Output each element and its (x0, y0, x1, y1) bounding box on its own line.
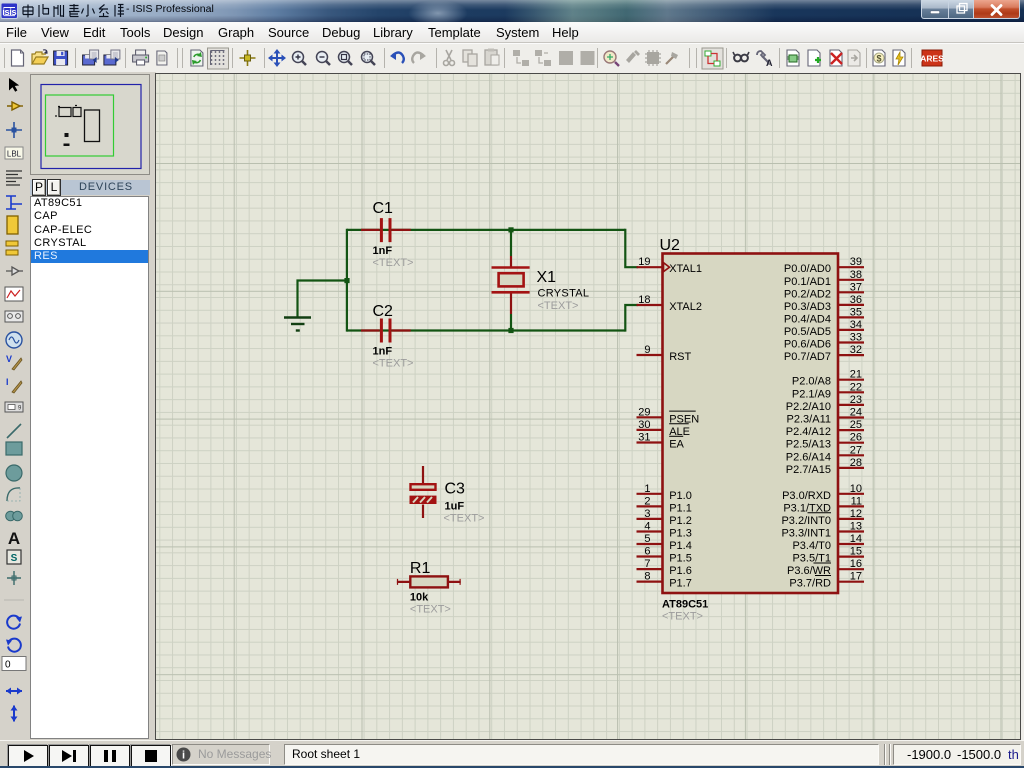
rotation angle box (2, 657, 26, 671)
svg-text:22: 22 (850, 381, 862, 393)
window buttons (921, 0, 1020, 19)
pin 15 P3.5/T1 (792, 546, 864, 565)
capacitor C1 (361, 218, 411, 242)
svg-text:1: 1 (644, 483, 650, 495)
junction node at left rail / ground (344, 278, 349, 283)
svg-text:P2.6/A14: P2.6/A14 (786, 451, 831, 463)
pin 12 P3.2/INT0 (781, 508, 864, 527)
print design icon (133, 50, 149, 65)
svg-text:P0.5/AD5: P0.5/AD5 (784, 326, 831, 338)
svg-text:ARES: ARES (920, 54, 944, 64)
svg-text:35: 35 (850, 306, 862, 318)
svg-text:AT89C51: AT89C51 (662, 599, 708, 611)
svg-text:10: 10 (850, 483, 862, 495)
svg-text:17: 17 (850, 571, 862, 583)
virtual instruments icon (5, 402, 23, 412)
window title: chinese characters drawn as svg strokes + latin text (20, 3, 214, 19)
svg-text:P1.5: P1.5 (669, 553, 692, 565)
svg-text:A: A (8, 529, 20, 548)
wire: crystal bottom stub (510, 314, 512, 332)
svg-text:39: 39 (850, 256, 862, 268)
redraw display icon (191, 50, 203, 66)
svg-text:A: A (766, 58, 773, 68)
pin 37 P0.2/AD2 (784, 281, 864, 300)
svg-text:30: 30 (638, 419, 650, 431)
design explorer icon (787, 50, 799, 66)
rotate anticlockwise icon (6, 639, 21, 652)
svg-text:26: 26 (850, 432, 862, 444)
junction dot mode icon (6, 122, 22, 138)
wire: bottom rail C2 to corner (347, 329, 625, 331)
svg-text:P2.5/A13: P2.5/A13 (786, 439, 831, 451)
2d line icon (7, 424, 21, 438)
pin 33 P0.6/AD6 (784, 332, 864, 351)
junction node top rail / crystal (508, 227, 513, 232)
svg-text:P1.4: P1.4 (669, 540, 692, 552)
pin 13 P3.3/INT1 (781, 521, 864, 540)
mini r1 mark (64, 144, 70, 147)
bus mode icon (6, 196, 22, 209)
pin 23 P2.2/A10 (786, 394, 864, 413)
pin 38 P0.1/AD1 (784, 269, 864, 288)
separator (4, 599, 24, 601)
svg-text:XTAL1: XTAL1 (669, 263, 702, 275)
pin 36 P0.3/AD3 (784, 294, 864, 313)
svg-text:P2.2/A10: P2.2/A10 (786, 401, 831, 413)
svg-text:21: 21 (850, 369, 862, 381)
new design icon (12, 50, 24, 66)
pin 14 P3.4/T0 (792, 533, 864, 552)
rotate clockwise icon (7, 616, 22, 629)
pin 17 P3.7/RD (789, 571, 864, 590)
zoom in icon (293, 52, 307, 66)
new sheet icon (808, 50, 821, 66)
tape recorder icon (5, 311, 23, 322)
svg-text:9: 9 (644, 344, 650, 356)
pin 32 P0.7/AD7 (784, 344, 864, 363)
svg-text:CRYSTAL: CRYSTAL (538, 288, 590, 300)
pin 3 P1.2 (637, 508, 692, 527)
svg-text:29: 29 (638, 406, 650, 418)
import section icon (83, 50, 99, 65)
wire: XTAL2 rise to pin 18 (625, 305, 638, 332)
pin 25 P2.4/A12 (786, 419, 864, 438)
netlist to ares icon (920, 50, 944, 66)
pin 5 P1.4 (637, 533, 692, 552)
pin 39 P0.0/AD0 (784, 256, 864, 275)
svg-text:19: 19 (638, 256, 650, 268)
svg-text:XTAL2: XTAL2 (669, 301, 702, 313)
svg-text:15: 15 (850, 546, 862, 558)
svg-text:10k: 10k (410, 592, 429, 604)
wire: left vertical rail (346, 229, 348, 332)
block copy icon (disabled) (513, 50, 529, 66)
svg-text:X1: X1 (537, 269, 557, 286)
mark output area icon (157, 51, 167, 65)
svg-text:EA: EA (669, 439, 684, 451)
svg-text:P1.7: P1.7 (669, 578, 692, 590)
component mode icon (7, 102, 23, 110)
electrical rule check icon (893, 50, 905, 66)
pin 21 P2.0/A8 (792, 369, 864, 388)
pin 19 clock indicator arrow (664, 263, 670, 272)
svg-text:C1: C1 (373, 200, 394, 217)
selection arrow icon (9, 78, 19, 92)
simulation step button (49, 745, 89, 767)
pin 2 P1.1 (637, 495, 692, 514)
svg-text:<TEXT>: <TEXT> (662, 611, 703, 623)
goto sheet icon (disabled) (848, 50, 860, 66)
open design icon (32, 50, 48, 64)
svg-text:<TEXT>: <TEXT> (373, 257, 414, 269)
svg-text:P3.2/INT0: P3.2/INT0 (781, 515, 831, 527)
svg-text:C2: C2 (373, 303, 394, 320)
pin 8 P1.7 (637, 571, 692, 590)
svg-text:P2.1/A9: P2.1/A9 (792, 388, 831, 400)
make device icon (disabled) (626, 50, 640, 63)
svg-text:P2.3/A11: P2.3/A11 (787, 414, 831, 426)
svg-text:12: 12 (850, 508, 862, 520)
pin 29 PSEN (637, 406, 700, 425)
crystal X1 (492, 256, 530, 314)
svg-text:24: 24 (850, 407, 862, 419)
svg-text:2: 2 (644, 495, 650, 507)
property assignment tool icon (757, 51, 773, 68)
simulation play button (8, 745, 48, 767)
2d arc icon (7, 488, 20, 501)
pin 6 P1.5 (637, 546, 692, 565)
pin 26 P2.5/A13 (786, 432, 864, 451)
svg-text:P3.4/T0: P3.4/T0 (792, 540, 831, 552)
pin 34 P0.5/AD5 (784, 319, 864, 338)
svg-text:1nF: 1nF (373, 245, 393, 257)
mini c3 mark (65, 133, 69, 137)
separators (5, 48, 912, 68)
capacitor C3 (electrolytic) (411, 466, 436, 518)
pin 19 XTAL1 (637, 256, 703, 275)
flip horizontal icon (6, 688, 22, 695)
svg-text:P2.4/A12: P2.4/A12 (786, 426, 831, 438)
svg-text:<TEXT>: <TEXT> (410, 604, 451, 616)
2d circle icon (6, 465, 22, 481)
redo icon (disabled) (412, 52, 426, 63)
svg-text:<TEXT>: <TEXT> (538, 300, 579, 312)
cut icon (disabled) (444, 50, 455, 66)
marker icon (7, 571, 21, 585)
svg-text:P3.7/RD: P3.7/RD (789, 578, 831, 590)
svg-text:P1.1: P1.1 (669, 502, 692, 514)
svg-text:P3.0/RXD: P3.0/RXD (782, 490, 831, 502)
svg-text:1nF: 1nF (373, 346, 393, 358)
junction node bottom rail / crystal (508, 328, 513, 333)
2d closed path icon (6, 511, 23, 521)
text script icon (6, 171, 22, 185)
bill of materials icon (873, 50, 885, 66)
svg-text:I: I (6, 377, 9, 387)
svg-text:8: 8 (644, 571, 650, 583)
root sheet field (284, 744, 879, 765)
svg-text:13: 13 (850, 521, 862, 533)
svg-text:P0.4/AD4: P0.4/AD4 (784, 313, 831, 325)
pin 11 P3.1/TXD (783, 495, 864, 514)
simulation stop button (131, 745, 171, 767)
pin 16 P3.6/WR (787, 558, 864, 577)
device list (30, 196, 149, 739)
svg-text:P2.7/A15: P2.7/A15 (786, 464, 831, 476)
zoom out icon (317, 52, 331, 66)
svg-text:38: 38 (850, 269, 862, 281)
wire: crystal top stub (510, 229, 512, 256)
svg-text:P0.3/AD3: P0.3/AD3 (784, 301, 831, 313)
paste icon (disabled) (485, 49, 499, 66)
svg-text:LBL: LBL (7, 150, 22, 159)
sheet outline (blue) (41, 85, 141, 169)
svg-text:C3: C3 (445, 481, 466, 498)
ground symbol (284, 318, 311, 331)
svg-text:P0.2/AD2: P0.2/AD2 (784, 288, 831, 300)
pin 18 XTAL2 (637, 294, 703, 313)
svg-text:P1.6: P1.6 (669, 565, 692, 577)
undo icon (390, 52, 404, 63)
device pin mode icon (6, 267, 23, 275)
message area (172, 744, 270, 765)
block rotate icon (disabled) (559, 51, 573, 65)
svg-text:R1: R1 (410, 560, 431, 577)
capacitor C2 (361, 319, 411, 343)
search tag icon (733, 52, 749, 61)
voltage probe icon (6, 354, 22, 370)
svg-text:RST: RST (669, 351, 691, 363)
svg-text:<TEXT>: <TEXT> (373, 358, 414, 370)
svg-text:P1.0: P1.0 (669, 490, 692, 502)
block move icon (disabled) (535, 50, 551, 66)
svg-text:18: 18 (638, 294, 650, 306)
2d symbol icon (7, 550, 21, 564)
graph mode icon (5, 287, 23, 301)
svg-text:16: 16 (850, 558, 862, 570)
remove sheet icon (830, 50, 842, 66)
svg-text:P0.6/AD6: P0.6/AD6 (784, 339, 831, 351)
mini crystal + caps cluster (56, 106, 81, 118)
wire autorouter icon (pressed) (702, 48, 723, 69)
copy icon (disabled) (463, 50, 477, 66)
svg-text:S: S (11, 553, 18, 564)
pin 4 P1.3 (637, 521, 692, 540)
svg-text:31: 31 (638, 432, 650, 444)
flip vertical icon (11, 706, 18, 722)
svg-text:<TEXT>: <TEXT> (444, 513, 485, 525)
pin 31 EA (637, 432, 685, 451)
svg-text:P0.7/AD7: P0.7/AD7 (784, 351, 831, 363)
pin 35 P0.4/AD4 (784, 306, 864, 325)
svg-text:6: 6 (644, 546, 650, 558)
pick parts icon (604, 51, 619, 66)
export section icon (104, 50, 120, 65)
block delete icon (disabled) (581, 51, 595, 65)
svg-text:0: 0 (5, 660, 11, 671)
pin 1 P1.0 (637, 483, 692, 502)
svg-text:34: 34 (850, 319, 862, 331)
zoom all icon (339, 52, 353, 66)
svg-text:14: 14 (850, 533, 862, 545)
svg-text:32: 32 (850, 344, 862, 356)
toggle grid icon (pressed) (208, 48, 229, 69)
svg-text:P0.0/AD0: P0.0/AD0 (784, 263, 831, 275)
pin 9 RST (637, 344, 692, 363)
svg-text:11: 11 (851, 495, 862, 507)
decompose icon (disabled) (666, 52, 678, 64)
svg-text:P0.1/AD1: P0.1/AD1 (784, 276, 831, 288)
zoom area icon (362, 52, 376, 66)
pin 10 P3.0/RXD (782, 483, 864, 502)
pin 30 ALE (637, 419, 690, 438)
2d box icon (6, 442, 22, 455)
svg-text:1uF: 1uF (445, 501, 465, 513)
packaging tool icon (disabled) (645, 50, 661, 66)
svg-text:28: 28 (850, 457, 862, 469)
svg-text:P1.3: P1.3 (669, 528, 692, 540)
pin 22 P2.1/A9 (792, 381, 864, 400)
svg-text:P3.3/INT1: P3.3/INT1 (781, 528, 831, 540)
terminal mode icon (6, 241, 18, 255)
subcircuit mode icon (7, 216, 18, 234)
simulation pause button (90, 745, 130, 767)
svg-text:3: 3 (644, 508, 650, 520)
svg-text:U2: U2 (660, 237, 681, 254)
wire: top rail C1 to corner (347, 229, 625, 231)
svg-text:V: V (6, 354, 12, 364)
mini chip (85, 110, 100, 142)
svg-text:5: 5 (644, 533, 650, 545)
resistor R1 (397, 576, 461, 587)
svg-text:$: $ (876, 54, 881, 64)
svg-text:4: 4 (644, 521, 650, 533)
svg-text:37: 37 (850, 281, 862, 293)
svg-text:23: 23 (850, 394, 862, 406)
wire: ground branch (298, 281, 348, 317)
P L buttons and DEVICES header (30, 179, 150, 196)
wire: XTAL1 drop to pin 19 (625, 229, 638, 267)
schematic overview preview panel (30, 74, 150, 175)
application icon isis (1, 3, 17, 19)
current probe icon (6, 377, 22, 393)
svg-text:27: 27 (850, 444, 862, 456)
svg-text:P1.2: P1.2 (669, 515, 692, 527)
view area (green) (46, 95, 114, 156)
left mode toolbar (0, 72, 29, 732)
save design icon (54, 51, 68, 65)
pan icon (268, 49, 286, 67)
svg-text:25: 25 (850, 419, 862, 431)
coordinates field (893, 744, 1021, 765)
svg-text:i: i (182, 750, 185, 762)
svg-text:36: 36 (850, 294, 862, 306)
svg-text:7: 7 (644, 558, 650, 570)
pin 27 P2.6/A14 (786, 444, 864, 463)
svg-text:P2.0/A8: P2.0/A8 (792, 376, 831, 388)
generator mode icon (6, 332, 22, 348)
pin 24 P2.3/A11 (787, 407, 864, 426)
svg-text:33: 33 (850, 332, 862, 344)
pin 7 P1.6 (637, 558, 692, 577)
wire label icon LBL (5, 147, 23, 159)
pin 28 P2.7/A15 (786, 457, 864, 476)
false origin icon (240, 50, 256, 66)
IC U2 body (663, 254, 839, 594)
